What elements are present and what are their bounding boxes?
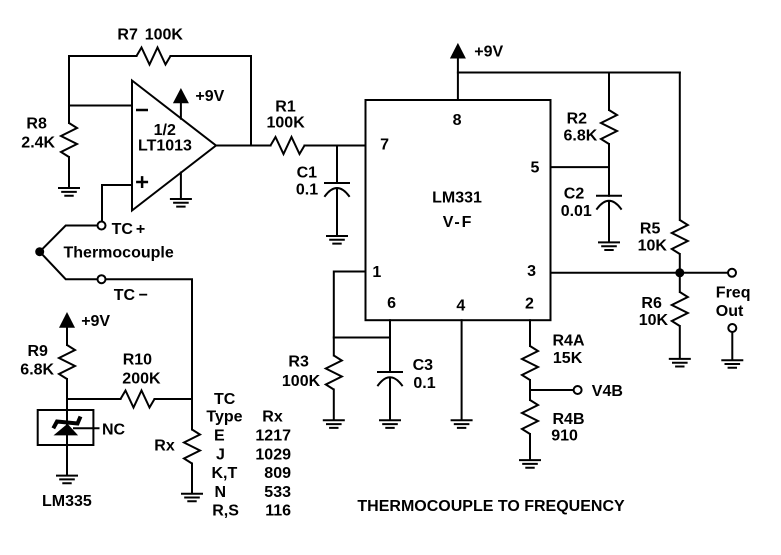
- svg-text:R1: R1: [275, 99, 296, 116]
- svg-text:100K: 100K: [267, 115, 306, 132]
- svg-text:K,T: K,T: [212, 465, 238, 482]
- wire pin 4 to ground: [461, 320, 463, 419]
- wire R2 branch: [608, 73, 610, 111]
- svg-text:THERMOCOUPLE TO FREQUENCY: THERMOCOUPLE TO FREQUENCY: [357, 498, 625, 515]
- pin 7 label: [380, 137, 389, 154]
- svg-text:R6: R6: [641, 295, 662, 312]
- wire R7 feedback loop left/top: [69, 56, 137, 106]
- wire pin 2 down: [529, 320, 531, 346]
- svg-text:R3: R3: [288, 354, 309, 371]
- resistor R1: [267, 99, 306, 154]
- svg-text:1029: 1029: [255, 446, 291, 463]
- ground at op-amp: [170, 173, 192, 207]
- op-amp U1 LT1013: [132, 81, 216, 211]
- svg-text:E: E: [214, 428, 225, 445]
- svg-text:+9V: +9V: [81, 313, 110, 330]
- capacitor C1: [296, 146, 349, 236]
- wire non-inverting input: [102, 185, 132, 222]
- wire junction to TC-: [40, 252, 98, 280]
- wire pin 5: [551, 166, 610, 168]
- svg-text:TC: TC: [214, 391, 236, 408]
- pin 1 label: [372, 264, 381, 281]
- resistor R10: [67, 351, 192, 407]
- svg-text:LT1013: LT1013: [138, 138, 192, 155]
- svg-text:R9: R9: [28, 343, 49, 360]
- svg-text:Rx: Rx: [262, 408, 283, 425]
- svg-text:C1: C1: [297, 165, 318, 182]
- svg-text:1/2: 1/2: [154, 122, 176, 139]
- svg-text:V-F: V-F: [443, 214, 474, 231]
- sensor U2 LM335: [38, 399, 94, 510]
- svg-text:533: 533: [264, 484, 291, 501]
- wire R7 top right / down to output: [171, 56, 252, 146]
- svg-text:3: 3: [527, 263, 536, 280]
- node output junction: [675, 268, 684, 277]
- svg-text:116: 116: [265, 502, 291, 519]
- svg-text:R4B: R4B: [553, 411, 585, 428]
- ground below R8: [58, 188, 80, 196]
- svg-text:10K: 10K: [639, 312, 669, 329]
- wire TC- to Rx branch: [106, 279, 193, 429]
- svg-text:R2: R2: [567, 110, 588, 127]
- pin 6 label: [387, 295, 396, 312]
- wire inverting input: [69, 105, 132, 107]
- wire pin 6 down: [389, 320, 391, 372]
- pin 2 label: [525, 295, 534, 312]
- svg-text:NC: NC: [102, 421, 126, 438]
- svg-text:0.01: 0.01: [561, 203, 592, 220]
- svg-text:R7: R7: [117, 26, 138, 43]
- ground below C3: [379, 420, 401, 428]
- IC U3 LM331: [366, 100, 551, 320]
- svg-text:1217: 1217: [255, 428, 291, 445]
- resistor R9: [20, 343, 75, 399]
- svg-text:LM331: LM331: [432, 189, 482, 206]
- resistor R6: [639, 273, 688, 358]
- svg-text:6: 6: [387, 295, 396, 312]
- svg-text:LM335: LM335: [42, 493, 92, 510]
- svg-text:TC−: TC−: [114, 287, 148, 304]
- resistor R7: [117, 26, 183, 64]
- svg-text:R5: R5: [640, 221, 661, 238]
- ground below LM335: [56, 476, 78, 484]
- svg-text:200K: 200K: [122, 371, 161, 388]
- svg-text:809: 809: [264, 465, 291, 482]
- svg-text:R,S: R,S: [212, 502, 239, 519]
- wire pin 1: [334, 272, 366, 356]
- svg-text:100K: 100K: [145, 26, 184, 43]
- ground below terminal: [721, 360, 743, 368]
- svg-text:7: 7: [380, 137, 389, 154]
- svg-text:910: 910: [551, 427, 578, 444]
- terminal TC-: [98, 275, 148, 304]
- svg-text:Freq: Freq: [716, 284, 751, 301]
- svg-text:C2: C2: [564, 185, 585, 202]
- resistor R4A: [522, 333, 585, 391]
- svg-text:8: 8: [453, 112, 462, 129]
- svg-text:100K: 100K: [282, 373, 321, 390]
- wire +9V rail top: [458, 72, 680, 74]
- pin 4 label: [456, 298, 465, 315]
- svg-text:C3: C3: [413, 357, 434, 374]
- resistor Rx: [154, 430, 200, 493]
- pin 8 label: [453, 112, 462, 129]
- power +9V at op-amp: [173, 88, 225, 119]
- ground below pin 4: [451, 420, 473, 428]
- terminal Freq Out: [716, 269, 751, 320]
- capacitor C2: [561, 167, 621, 241]
- wire pin1 branch to pin 6: [334, 337, 390, 339]
- svg-text:+9V: +9V: [195, 88, 224, 105]
- resistor R3: [282, 354, 342, 420]
- svg-text:1: 1: [372, 264, 381, 281]
- ground below C1: [326, 236, 348, 244]
- svg-text:R10: R10: [123, 351, 152, 368]
- svg-text:Out: Out: [716, 303, 744, 320]
- terminal V4B: [574, 383, 623, 400]
- power +9V at pin 8: [450, 43, 504, 100]
- ground below Rx: [181, 494, 203, 502]
- ground below R6: [669, 359, 691, 367]
- wire TC+ to junction: [40, 226, 98, 252]
- svg-text:2: 2: [525, 295, 534, 312]
- resistor R4B: [522, 390, 585, 459]
- svg-text:TC+: TC+: [112, 221, 146, 238]
- svg-text:6.8K: 6.8K: [564, 127, 598, 144]
- svg-text:Rx: Rx: [154, 438, 175, 455]
- svg-text:J: J: [216, 446, 225, 463]
- wire R1 to pin 7: [305, 145, 366, 147]
- svg-text:V4B: V4B: [592, 383, 623, 400]
- pin 3 label: [527, 263, 536, 280]
- wire R5 branch: [679, 73, 681, 221]
- wire V4B tap: [530, 389, 574, 391]
- svg-text:6.8K: 6.8K: [20, 361, 54, 378]
- table TC type / Rx values: [206, 391, 291, 519]
- ground below C2: [598, 242, 620, 250]
- svg-text:2.4K: 2.4K: [21, 135, 55, 152]
- wire op-amp output to R1: [216, 145, 271, 147]
- svg-text:N: N: [215, 484, 227, 501]
- terminal TC+: [98, 221, 146, 238]
- terminal ground reference: [728, 324, 736, 359]
- resistor R8: [21, 106, 77, 188]
- svg-text:4: 4: [456, 298, 465, 315]
- pin 5 label: [531, 160, 540, 177]
- svg-text:R8: R8: [26, 116, 47, 133]
- power +9V at R9: [59, 312, 110, 345]
- svg-text:0.1: 0.1: [413, 375, 435, 392]
- wire pin 3 to output: [551, 272, 729, 274]
- svg-text:Thermocouple: Thermocouple: [64, 245, 174, 262]
- svg-text:R4A: R4A: [553, 333, 585, 350]
- svg-text:5: 5: [531, 160, 540, 177]
- capacitor C3: [378, 357, 436, 419]
- svg-text:Type: Type: [206, 408, 242, 425]
- ground below R4B: [519, 460, 541, 468]
- svg-text:+9V: +9V: [474, 44, 503, 61]
- svg-text:0.1: 0.1: [296, 182, 318, 199]
- resistor R5: [638, 220, 688, 273]
- svg-text:10K: 10K: [638, 238, 668, 255]
- ground below R3: [323, 420, 345, 428]
- title caption: [357, 498, 625, 515]
- resistor R2: [564, 110, 618, 167]
- node thermocouple junction: [35, 245, 174, 262]
- svg-text:15K: 15K: [553, 350, 583, 367]
- pin NC of LM335: [74, 421, 126, 438]
